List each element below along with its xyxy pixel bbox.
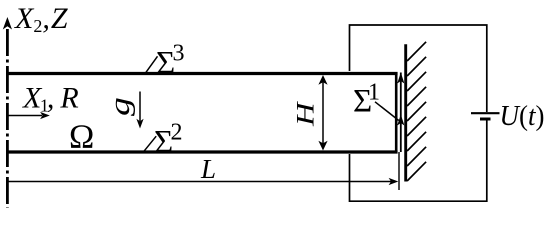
svg-text:1: 1 [368, 80, 380, 106]
svg-text:3: 3 [173, 41, 185, 67]
svg-text:2: 2 [171, 120, 183, 146]
svg-text:L: L [200, 154, 216, 184]
svg-text:g: g [105, 97, 136, 116]
svg-text:H: H [292, 100, 320, 127]
svg-text:Ω: Ω [69, 119, 94, 156]
svg-text:X1,R: X1,R [22, 82, 79, 116]
svg-text:U(t): U(t) [500, 100, 545, 132]
